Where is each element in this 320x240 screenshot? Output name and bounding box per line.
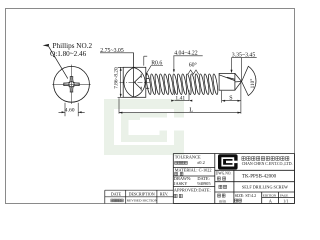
drill point flute [219,73,241,90]
shank neck [146,79,149,89]
recess center circle [69,82,74,87]
svg-text:TOLERANCE: TOLERANCE [175,154,201,159]
watermark company logo [104,99,184,155]
title block outline [173,154,294,204]
svg-text:m/m: m/m [219,199,226,203]
company logo black [218,154,238,169]
rev label CJK 修改日期 [111,199,123,202]
svg-text:MATERIAL: C-1022: MATERIAL: C-1022 [175,168,212,173]
svg-text:DWG.NO.: DWG.NO. [216,172,232,176]
svg-text:TK-PPSB-42000: TK-PPSB-42000 [242,174,277,179]
center line ticks [52,65,90,104]
phillips recess cross [64,77,79,92]
svg-text:DESCRIPTION: DESCRIPTION [129,192,155,197]
svg-text:L: L [189,106,193,113]
dim 4.60 [65,103,78,117]
dim L overall length [119,98,241,113]
head side view [120,53,150,98]
svg-text:EDITION: EDITION [263,194,277,198]
svg-text:1.41: 1.41 [175,96,185,102]
svg-text:4.60: 4.60 [65,108,75,114]
CJK 核準 [174,194,182,197]
dim S point length [222,82,241,102]
dim 1.41 pitch [175,90,190,101]
revision table [105,190,174,203]
svg-text:7.86~8.20: 7.86~8.20 [113,67,119,89]
svg-text:940905: 940905 [197,181,211,186]
svg-text:Q:1.80~2.46: Q:1.80~2.46 [50,50,87,58]
head centerline [120,81,150,83]
svg-text:REV.: REV. [160,192,168,197]
svg-text:PAGE: PAGE [280,194,288,198]
svg-text:60°: 60° [189,61,198,68]
thread coil [145,74,218,95]
recess profile in side view [134,76,141,89]
110 deg point angle sector [242,66,256,95]
svg-text:110°: 110° [249,79,256,89]
svg-text:SELF DRILLING SCREW: SELF DRILLING SCREW [242,185,288,190]
head front view circle [54,66,90,102]
svg-text:JASKY: JASKY [174,181,188,186]
drill cone tip [235,73,242,90]
CJK 圖號 [217,177,225,180]
svg-text:DATE: DATE [111,192,122,197]
dim 7.86~8.20 head diameter [120,67,122,97]
svg-text:1/1: 1/1 [283,198,288,203]
CJK 一般公差 [175,161,188,164]
drawing border frame [6,9,295,204]
svg-text:±0.2: ±0.2 [197,160,205,165]
svg-text:SIZE: ST/4.2: SIZE: ST/4.2 [235,193,256,198]
svg-text:APPROVED:: APPROVED: [174,187,198,192]
CJK 品名 [219,185,227,188]
svg-text:S: S [229,95,232,101]
CJK 規格 [235,199,242,202]
svg-text:DATE:: DATE: [198,187,210,192]
svg-text:REVISED SECTION: REVISED SECTION [127,198,158,202]
CJK 單位 [218,194,225,197]
svg-text:Phillips NO.2: Phillips NO.2 [53,42,93,50]
leader arrow phillips note [49,46,68,78]
company name CJK 展誠企業股份有限公司 [242,157,289,161]
CJK 材質 [175,172,183,175]
